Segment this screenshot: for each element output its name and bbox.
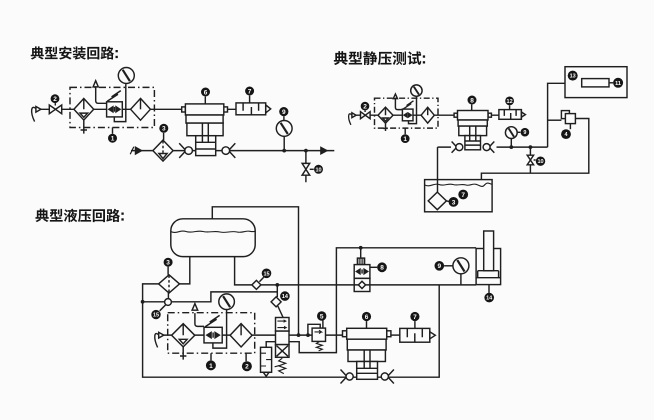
svg-text:10: 10 [537, 159, 543, 165]
svg-text:9: 9 [523, 130, 526, 136]
svg-text:6: 6 [365, 314, 369, 321]
svg-text:7: 7 [461, 192, 465, 199]
svg-text:14: 14 [486, 296, 493, 302]
svg-text:8: 8 [380, 265, 384, 272]
svg-text:14: 14 [282, 294, 289, 300]
svg-text:9: 9 [282, 109, 286, 116]
svg-text:1: 1 [403, 136, 407, 143]
svg-text:7: 7 [248, 88, 252, 95]
svg-text:1: 1 [111, 136, 115, 143]
svg-text:2: 2 [53, 96, 57, 103]
svg-text:13: 13 [570, 74, 576, 80]
svg-text:8: 8 [470, 97, 474, 104]
svg-text:11: 11 [615, 81, 621, 87]
svg-text:6: 6 [204, 89, 208, 96]
svg-text:3: 3 [452, 199, 456, 206]
svg-text:1: 1 [209, 363, 213, 370]
svg-text:15: 15 [153, 313, 159, 319]
svg-text:3: 3 [162, 126, 166, 133]
svg-text:2: 2 [363, 104, 367, 111]
svg-text:15: 15 [263, 271, 269, 277]
svg-text:2: 2 [245, 364, 249, 371]
svg-text:10: 10 [315, 167, 321, 173]
svg-text:9: 9 [437, 263, 441, 270]
svg-text:12: 12 [507, 99, 513, 105]
svg-text:5: 5 [320, 313, 324, 320]
svg-text:3: 3 [166, 260, 170, 267]
svg-text:7: 7 [413, 314, 417, 321]
